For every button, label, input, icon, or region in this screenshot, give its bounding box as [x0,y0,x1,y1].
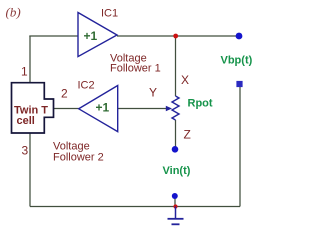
terminal right square [236,81,242,87]
svg-text:Vbp(t): Vbp(t) [221,55,253,67]
potentiometer wiper arrow [166,106,172,111]
wire bottom [30,206,240,208]
wire IC1 input [29,35,78,37]
svg-text:IC2: IC2 [78,80,95,92]
svg-text:Y: Y [149,86,157,100]
junction node X [173,34,178,39]
wire IC2 output to wiper [118,108,167,110]
svg-text:X: X [181,73,189,87]
terminal Z dot [172,146,179,153]
svg-text:Z: Z [184,128,191,142]
wire X vertical [175,36,177,96]
svg-text:IC1: IC1 [101,8,118,20]
svg-text:Rpot: Rpot [188,97,213,109]
svg-text:Follower 2: Follower 2 [53,151,104,163]
svg-text:+1: +1 [96,101,110,115]
wire pin3 vertical [29,133,31,207]
junction ground node [173,204,177,208]
svg-text:2: 2 [61,87,68,101]
svg-text:1: 1 [21,65,28,79]
potentiometer Rpot zigzag [172,96,179,120]
ground [168,207,184,225]
wire node1 vertical [29,36,31,83]
wire pin2 [54,108,79,110]
terminal Vbp dot [236,33,243,40]
wire Vin minus stub [174,198,176,207]
op-amp IC1 [78,13,117,57]
svg-text:(b): (b) [6,5,21,20]
wire IC1 output to Vbp [117,35,238,37]
svg-text:3: 3 [22,143,29,157]
svg-text:+1: +1 [84,29,98,43]
wire Z vertical [175,120,177,148]
svg-text:Follower 1: Follower 1 [110,62,161,74]
terminal Vin minus dot [172,193,178,199]
svg-text:cell: cell [17,115,35,127]
wire right vertical [239,86,241,207]
svg-text:Vin(t): Vin(t) [163,165,191,177]
op-amp IC2 [79,86,118,132]
Twin T cell box [12,83,54,133]
